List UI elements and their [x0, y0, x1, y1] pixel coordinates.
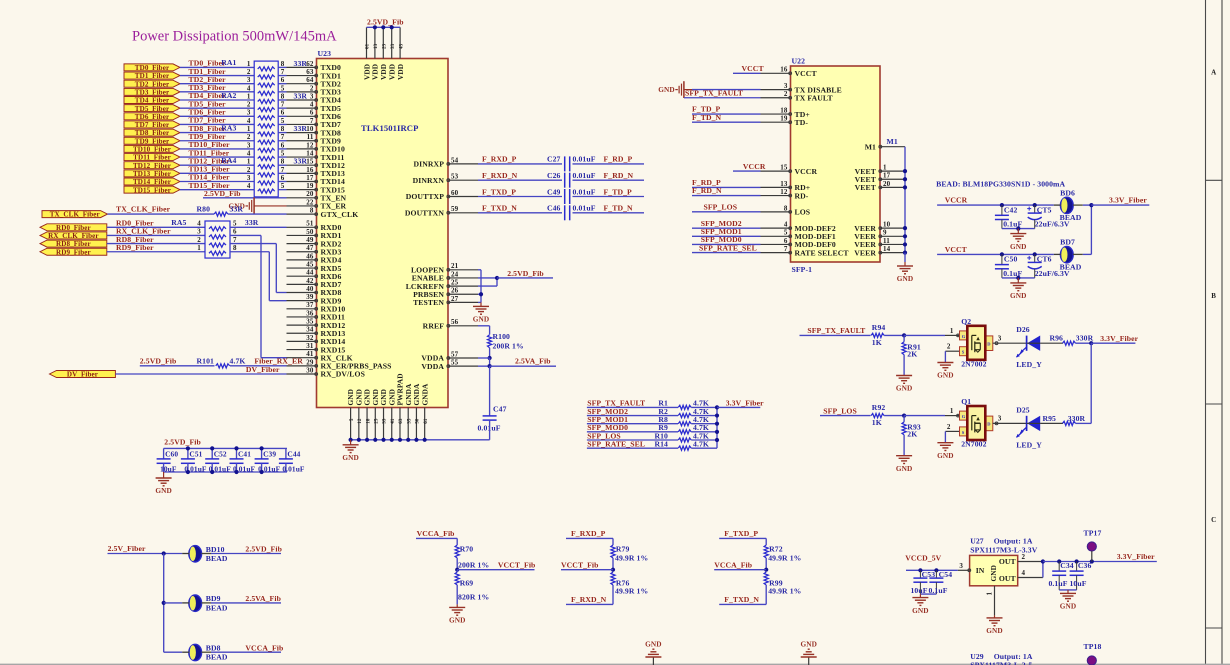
U23 pin 54 DINRXP	[448, 163, 478, 165]
resistor R99 49.9R 1%	[764, 572, 768, 585]
capacitor C44 0.01uF	[285, 448, 287, 459]
svg-text:BEAD: BEAD	[206, 554, 228, 563]
junction	[390, 438, 394, 442]
resistor RA2 element 4	[258, 124, 275, 128]
svg-text:C46: C46	[547, 204, 561, 213]
power net 3.3V_Fiber at Q2	[1091, 342, 1135, 344]
svg-text:8: 8	[281, 60, 285, 68]
LED D26 LED_Y	[1026, 336, 1028, 351]
svg-text:8: 8	[233, 244, 237, 252]
svg-text:26: 26	[451, 287, 459, 295]
svg-text:56: 56	[451, 318, 459, 326]
U23 pin 45 RXD5	[287, 267, 317, 269]
svg-text:2K: 2K	[907, 430, 917, 439]
svg-text:35: 35	[407, 418, 412, 424]
svg-text:VCCT: VCCT	[795, 69, 818, 78]
svg-text:41: 41	[391, 418, 396, 424]
port RD0_Fiber	[40, 224, 107, 231]
U23 pin 36 RXD11	[287, 316, 317, 318]
ground under R93	[903, 454, 905, 457]
capacitor C52 0.01uF	[211, 448, 213, 459]
U23 pin 30 RX_DV/LOS	[287, 373, 317, 375]
wire RD9 route	[230, 251, 269, 253]
junction	[406, 438, 410, 442]
svg-text:49.9R 1%: 49.9R 1%	[768, 586, 801, 595]
svg-text:VCCT_Fib: VCCT_Fib	[498, 561, 536, 570]
U22 pin 8 LOS	[761, 211, 791, 213]
svg-text:8: 8	[310, 207, 314, 215]
svg-text:2: 2	[197, 236, 201, 244]
svg-text:61: 61	[424, 418, 429, 424]
svg-text:F_TXD_N: F_TXD_N	[482, 204, 517, 213]
svg-text:25: 25	[451, 279, 459, 287]
svg-text:GND: GND	[937, 451, 954, 460]
U22 pin 12 RD-	[761, 195, 791, 197]
svg-text:3: 3	[784, 82, 788, 90]
capacitor C39 0.01uF	[261, 448, 263, 459]
svg-text:SFP_TX_FAULT: SFP_TX_FAULT	[685, 88, 744, 97]
capacitor C53 10uF	[919, 570, 921, 578]
wire	[180, 189, 254, 191]
svg-text:BD6: BD6	[1060, 188, 1075, 197]
U23 pin 47 RXD3	[287, 251, 317, 253]
svg-text:CT6: CT6	[1037, 255, 1052, 264]
U23 pin 57 VDDA	[448, 357, 478, 359]
svg-text:10: 10	[883, 221, 891, 229]
svg-text:RA3: RA3	[221, 123, 236, 132]
junction	[764, 568, 768, 572]
junction	[715, 405, 719, 409]
U23 pin 3 TXD4	[287, 99, 317, 101]
power net VCCT	[733, 72, 761, 74]
svg-text:GND: GND	[155, 486, 172, 495]
svg-text:15: 15	[306, 158, 314, 166]
svg-text:DV_Fiber: DV_Fiber	[67, 371, 98, 379]
wire	[180, 91, 254, 93]
svg-text:F_RD_N: F_RD_N	[604, 171, 634, 180]
svg-text:RREF: RREF	[423, 322, 445, 331]
U23 pin 12 TXD10	[287, 148, 317, 150]
wire	[573, 196, 645, 198]
junction	[186, 446, 190, 450]
ground C53/C54	[919, 594, 921, 598]
svg-text:2.5VD_Fib: 2.5VD_Fib	[245, 545, 282, 554]
wire	[456, 538, 458, 545]
svg-text:36: 36	[306, 309, 314, 317]
svg-text:VCCA_Fib: VCCA_Fib	[245, 643, 283, 652]
svg-text:C26: C26	[547, 171, 561, 180]
wire	[278, 91, 286, 93]
svg-text:F_TD_N: F_TD_N	[692, 113, 722, 122]
resistor RA3 element 3	[258, 148, 275, 152]
svg-text:3: 3	[998, 334, 1002, 342]
ground under R91	[903, 374, 905, 377]
svg-text:1K: 1K	[872, 338, 882, 347]
svg-text:GND: GND	[342, 453, 359, 462]
svg-text:6: 6	[281, 174, 285, 182]
wire	[573, 163, 645, 165]
svg-text:RD8_Fiber: RD8_Fiber	[56, 240, 91, 248]
svg-text:4: 4	[247, 117, 251, 125]
svg-text:D26: D26	[1016, 325, 1030, 334]
wire	[691, 423, 717, 425]
svg-text:G: G	[962, 414, 966, 419]
svg-text:C44: C44	[287, 449, 300, 458]
junction	[902, 414, 906, 418]
svg-text:19: 19	[306, 182, 314, 190]
svg-text:44: 44	[306, 269, 314, 277]
svg-text:SPX1117M3-L-3.3V: SPX1117M3-L-3.3V	[970, 545, 1038, 554]
junction	[1000, 252, 1004, 256]
junction	[495, 276, 499, 280]
U22 pin 2 TX FAULT	[761, 97, 791, 99]
svg-text:32: 32	[306, 334, 314, 342]
svg-text:33R: 33R	[245, 218, 259, 227]
resistor RA4 element 4	[258, 189, 275, 193]
junction	[479, 292, 483, 296]
svg-text:GND: GND	[912, 606, 929, 615]
U23 top pin VDD	[391, 27, 393, 58]
svg-text:16: 16	[780, 66, 788, 74]
ferrite bead BD10	[189, 546, 202, 562]
svg-text:46: 46	[306, 252, 314, 260]
svg-text:0.01uF: 0.01uF	[573, 187, 596, 196]
wire 3.3V bus to Q1 row	[1090, 343, 1092, 423]
svg-text:5: 5	[350, 418, 355, 421]
U23 pin 29 RX_ER/PRBS_PASS	[287, 365, 317, 367]
power net 2.5VA_Fib	[490, 365, 556, 367]
svg-text:7: 7	[281, 166, 285, 174]
U23 pin 34 RXD13	[287, 332, 317, 334]
svg-text:1: 1	[247, 60, 251, 68]
svg-text:5: 5	[281, 149, 285, 157]
svg-text:20: 20	[306, 190, 314, 198]
U22 pin 3 TX DISABLE	[761, 89, 791, 91]
svg-text:SFP_RATE_SEL: SFP_RATE_SEL	[587, 439, 645, 448]
svg-text:19: 19	[780, 115, 788, 123]
svg-text:TX_CLK_Fiber: TX_CLK_Fiber	[116, 205, 171, 214]
svg-text:BD9: BD9	[206, 594, 221, 603]
svg-text:49.9R 1%: 49.9R 1%	[615, 586, 648, 595]
wire	[180, 107, 254, 109]
resistor RA4 element 2	[258, 173, 275, 177]
svg-text:TD5_Fiber: TD5_Fiber	[135, 105, 169, 113]
svg-text:R101: R101	[197, 356, 215, 365]
svg-text:2: 2	[1022, 553, 1026, 561]
svg-text:2: 2	[247, 166, 251, 174]
junction	[423, 438, 427, 442]
svg-text:OUT: OUT	[999, 574, 1017, 583]
svg-text:50: 50	[306, 228, 314, 236]
junction	[365, 438, 369, 442]
svg-text:TD3_Fiber: TD3_Fiber	[135, 88, 169, 96]
svg-text:6: 6	[784, 237, 788, 245]
power net VCCT	[937, 253, 1054, 255]
svg-text:S: S	[962, 350, 965, 355]
svg-text:30: 30	[306, 366, 314, 374]
svg-text:29: 29	[306, 358, 314, 366]
junction	[1000, 203, 1004, 207]
U22 pin 17 VEET	[880, 178, 905, 180]
svg-text:VCCR: VCCR	[795, 167, 818, 176]
svg-text:GND: GND	[1010, 242, 1027, 251]
junction	[903, 169, 907, 173]
capacitor C46 0.01uF	[564, 205, 566, 220]
svg-text:1: 1	[247, 158, 251, 166]
svg-text:12: 12	[358, 418, 363, 424]
resistor RA5 element 3	[209, 243, 226, 247]
wire drain	[993, 342, 1027, 344]
wire bead join	[1083, 204, 1092, 206]
svg-text:8: 8	[281, 125, 285, 133]
wire	[107, 243, 205, 245]
svg-text:37: 37	[306, 301, 314, 309]
svg-text:R80: R80	[197, 205, 211, 214]
capacitor C47 0.01uF	[483, 415, 497, 417]
power net VCCR	[937, 204, 1054, 206]
svg-text:SFP_LOS: SFP_LOS	[823, 406, 857, 415]
svg-text:63: 63	[306, 68, 314, 76]
svg-text:4: 4	[247, 84, 251, 92]
ground decoupling bank	[163, 472, 165, 478]
wire	[478, 212, 562, 214]
U23 pin 6 TXD6	[287, 115, 317, 117]
ferrite bead BD9	[189, 595, 202, 611]
junction	[455, 568, 459, 572]
net VCCT_Fib	[561, 569, 613, 571]
svg-text:VCCD_5V: VCCD_5V	[905, 553, 941, 562]
svg-text:0.01uF: 0.01uF	[573, 171, 596, 180]
U23 pin 19 TXD15	[287, 189, 317, 191]
svg-text:BD8: BD8	[206, 644, 221, 653]
transistor Q1 2N7002	[960, 411, 968, 420]
svg-text:A: A	[1211, 69, 1216, 77]
resistor RA2 element 3	[258, 116, 275, 120]
svg-text:DOUTTXN: DOUTTXN	[405, 209, 444, 218]
svg-text:33R: 33R	[294, 124, 308, 133]
svg-text:1: 1	[950, 327, 954, 335]
svg-text:BEAD: BEAD	[206, 603, 228, 612]
svg-text:F_TD_P: F_TD_P	[604, 187, 633, 196]
wire bead bus	[163, 554, 165, 653]
svg-text:D25: D25	[1016, 405, 1030, 414]
svg-text:BEAD: BEAD	[1060, 213, 1082, 222]
svg-text:TD14_Fiber: TD14_Fiber	[133, 178, 171, 186]
junction	[1075, 559, 1079, 563]
ground	[1017, 278, 1019, 283]
junction	[1089, 341, 1093, 345]
U23 pin 53 DINRXN	[448, 179, 478, 181]
net F_RD_P	[692, 186, 761, 188]
svg-text:TESTEN: TESTEN	[413, 298, 444, 307]
svg-text:R95: R95	[1042, 414, 1056, 423]
junction	[162, 551, 166, 555]
svg-text:LOS: LOS	[795, 208, 811, 217]
svg-text:SPX1117M3-L-2-5: SPX1117M3-L-2-5	[970, 661, 1032, 665]
wire RD8 route	[230, 243, 276, 245]
svg-text:TD6_Fiber: TD6_Fiber	[135, 113, 169, 121]
junction	[918, 568, 922, 572]
svg-text:DOUTTXP: DOUTTXP	[406, 192, 444, 201]
resistor RA5 element 1	[209, 227, 226, 231]
svg-text:VCCT_Fib: VCCT_Fib	[561, 561, 599, 570]
svg-text:17: 17	[306, 174, 314, 182]
svg-text:1K: 1K	[872, 418, 882, 427]
svg-text:TD1_Fiber: TD1_Fiber	[135, 72, 169, 80]
svg-text:C47: C47	[493, 405, 507, 414]
svg-text:3: 3	[998, 415, 1002, 423]
resistor RA5 element 4	[209, 251, 226, 255]
U23 pin 46 RXD4	[287, 259, 317, 261]
junction	[1033, 252, 1037, 256]
junction	[381, 25, 385, 29]
svg-text:4: 4	[247, 182, 251, 190]
capacitor C34 0.1uF	[1058, 562, 1060, 572]
wire to gate	[904, 415, 945, 417]
junction	[1033, 203, 1037, 207]
svg-text:7: 7	[281, 133, 285, 141]
wire GND rail under U23	[351, 439, 490, 441]
resistor R72 49.9R 1%	[764, 545, 768, 558]
svg-text:TD-: TD-	[795, 118, 809, 127]
svg-text:F_TD_N: F_TD_N	[604, 204, 634, 213]
wire source to ground	[945, 430, 959, 432]
svg-text:2.5VD_Fib: 2.5VD_Fib	[164, 437, 201, 446]
capacitor C50 0.1uF	[1001, 254, 1003, 264]
junction	[373, 25, 377, 29]
svg-text:5: 5	[281, 182, 285, 190]
wire	[1002, 277, 1035, 279]
svg-text:TD0_Fiber: TD0_Fiber	[135, 64, 169, 72]
svg-text:BEAD: BLM18PG330SN1D - 3000mA: BEAD: BLM18PG330SN1D - 3000mA	[936, 180, 1065, 189]
svg-text:VCCR: VCCR	[945, 196, 968, 205]
wire	[920, 593, 936, 595]
svg-text:35: 35	[306, 318, 314, 326]
svg-text:Q1: Q1	[961, 397, 971, 406]
svg-text:M1: M1	[887, 137, 898, 146]
junction	[903, 177, 907, 181]
capacitor C49 0.01uF	[564, 189, 566, 204]
U23 pin 16 TXD13	[287, 172, 317, 174]
svg-text:GND: GND	[986, 626, 1003, 635]
svg-text:20: 20	[883, 180, 891, 188]
U22 pin 9 VEER	[880, 235, 905, 237]
wire	[180, 123, 254, 125]
svg-text:BEAD: BEAD	[206, 653, 228, 662]
svg-text:34: 34	[306, 326, 314, 334]
power net 2.5VD_Fib decoupling rail	[164, 447, 287, 449]
svg-text:GND: GND	[989, 565, 998, 582]
ground R69	[456, 604, 458, 607]
wire	[180, 172, 254, 174]
svg-text:11: 11	[307, 133, 314, 141]
wire	[1076, 422, 1092, 424]
wire	[884, 415, 904, 417]
junction	[903, 242, 907, 246]
net F_RD_N	[692, 195, 761, 197]
svg-text:SFP_LOS: SFP_LOS	[704, 203, 738, 212]
net SFP_MOD2	[587, 415, 678, 417]
junction	[398, 438, 402, 442]
svg-text:43: 43	[399, 43, 404, 49]
U23 pin 22 TX_ER	[287, 205, 317, 207]
svg-text:10uF: 10uF	[160, 464, 177, 473]
U22 pin 10 VEER	[880, 227, 905, 229]
junction	[934, 568, 938, 572]
svg-text:62: 62	[306, 60, 314, 68]
resistor R76 49.9R 1%	[611, 572, 615, 585]
svg-text:C: C	[1211, 516, 1216, 524]
svg-text:R100: R100	[493, 332, 511, 341]
svg-text:BEAD: BEAD	[1060, 262, 1082, 271]
op-amp U23 body TLK1501IRCP	[317, 59, 449, 408]
junction	[902, 333, 906, 337]
wire RREF	[478, 325, 490, 327]
resistor RA2 element 1	[258, 99, 275, 103]
svg-text:27: 27	[451, 295, 459, 303]
wire	[278, 189, 286, 191]
capacitor C51 0.01uF	[187, 448, 189, 459]
resistor R95 330R	[1063, 421, 1076, 425]
svg-text:7: 7	[233, 236, 237, 244]
svg-text:G: G	[962, 334, 966, 339]
U23 pin 40 RXD8	[287, 292, 317, 294]
svg-text:31: 31	[306, 342, 314, 350]
capacitor C36 10uF	[1076, 562, 1078, 572]
U27 pin 3 IN	[958, 569, 970, 571]
U22 pin 20 VEET	[880, 186, 905, 188]
port TD1_Fiber	[124, 72, 180, 79]
svg-text:GND: GND	[937, 371, 954, 380]
svg-text:330R: 330R	[1068, 414, 1086, 423]
resistor RA3 element 4	[258, 156, 275, 160]
wire	[573, 179, 645, 181]
svg-text:RD0_Fiber: RD0_Fiber	[56, 224, 91, 232]
resistor RA3 element 2	[258, 140, 275, 144]
net SFP_TX_FAULT	[800, 334, 871, 336]
junction	[903, 185, 907, 189]
resistor R80 33R	[214, 212, 228, 216]
power net 2.5VA_Fib	[211, 602, 281, 604]
svg-text:33: 33	[383, 418, 388, 424]
net F_RXD_N	[566, 603, 613, 605]
svg-text:C50: C50	[1004, 255, 1018, 264]
port TD0_Fiber	[124, 64, 180, 71]
svg-text:0.1uF: 0.1uF	[1048, 579, 1067, 588]
svg-text:54: 54	[451, 156, 459, 164]
svg-text:63: 63	[399, 418, 404, 424]
svg-text:4: 4	[310, 101, 314, 109]
svg-text:GND: GND	[896, 464, 913, 473]
U22 pin 14 VEER	[880, 252, 905, 254]
svg-text:200R 1%: 200R 1%	[493, 341, 524, 350]
svg-text:25: 25	[374, 418, 379, 424]
svg-text:33R: 33R	[230, 205, 244, 214]
U22 pin 4 MOD-DEF2	[761, 227, 791, 229]
U23 pin 14 TXD11	[287, 156, 317, 158]
power net 2.5VD_Fib	[497, 277, 553, 279]
svg-text:60: 60	[451, 189, 459, 197]
wire	[691, 415, 717, 417]
net F_TD_N	[692, 121, 761, 123]
U23 top pin VDD	[366, 27, 368, 58]
svg-text:VEET: VEET	[855, 183, 877, 192]
svg-text:C27: C27	[547, 155, 561, 164]
wire VEET/VEER bus	[904, 147, 906, 253]
LED D25 LED_Y	[1026, 416, 1028, 431]
U22 pin 1 VEET	[880, 170, 905, 172]
wire	[278, 123, 286, 125]
